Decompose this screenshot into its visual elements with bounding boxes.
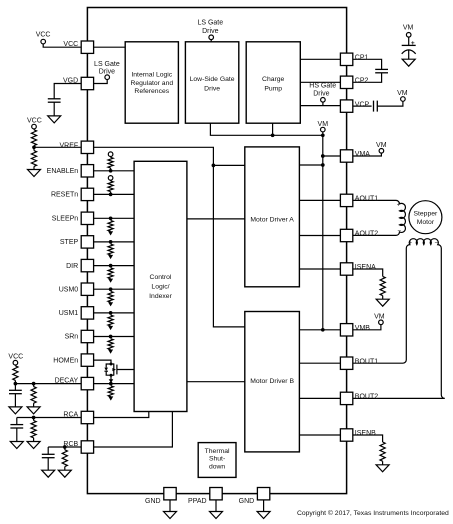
wire resistor to VREF node	[33, 146, 35, 148]
svg-text:DIR: DIR	[66, 263, 78, 270]
pin BOUT1	[340, 357, 352, 369]
svg-text:USM0: USM0	[59, 286, 79, 293]
arrow pull-down USM0	[108, 302, 113, 306]
resistor VCC to DECAY	[14, 364, 16, 367]
pin PPAD bottom	[210, 488, 222, 500]
wire VCC pin to internal logic box	[94, 46, 126, 48]
wire VREF net	[94, 147, 245, 327]
wire control logic to motor driver B	[187, 381, 245, 383]
wire SRn to control logic	[94, 336, 135, 338]
svg-text:VCP: VCP	[355, 101, 370, 108]
terminal pull-up RESETn	[108, 176, 113, 181]
svg-text:VM: VM	[403, 25, 414, 32]
wire charge pump to VCP	[300, 105, 340, 107]
svg-text:VCC: VCC	[27, 117, 42, 124]
IC boundary	[87, 8, 346, 494]
svg-text:−: −	[397, 228, 401, 235]
junction VM to motor driver A	[321, 163, 325, 167]
resistor pull-down SLEEPn	[108, 221, 113, 232]
svg-text:VM: VM	[397, 90, 408, 97]
pin CP2	[340, 76, 352, 88]
wire transistor to DECAY net	[110, 375, 112, 383]
wire LS gate drive top terminal	[210, 40, 212, 42]
capacitor RCA	[16, 418, 18, 425]
wire GND2 pin to ground	[263, 500, 265, 512]
svg-text:Drive: Drive	[99, 68, 115, 75]
wire motor driver A to AOUT2	[299, 235, 340, 237]
pin GND bottom	[164, 488, 176, 500]
junction VM rail top	[321, 133, 325, 137]
pin ENABLEn	[81, 165, 93, 177]
wire VM rail to VMA pin	[323, 155, 341, 157]
pin BOUT2	[340, 392, 352, 404]
block internal logic regulator and references	[125, 42, 178, 123]
svg-text:Charge: Charge	[262, 76, 285, 83]
pin USM1	[81, 307, 93, 319]
pin USM0	[81, 283, 93, 295]
resistor pull-down SRn	[108, 339, 113, 350]
pin CP1	[340, 53, 352, 65]
capacitor CP flying	[375, 68, 388, 70]
svg-text:VMA: VMA	[355, 151, 371, 158]
wire motor driver B to ISENB	[299, 434, 340, 436]
junction STEP	[109, 240, 113, 244]
junction DIR	[109, 264, 113, 268]
wire charge pump to CP1	[300, 58, 340, 60]
pin VCP	[340, 100, 352, 112]
wire STEP to control logic	[94, 241, 135, 243]
wire ENABLEn to control logic	[94, 170, 135, 172]
wire motor driver B to BOUT2	[299, 397, 340, 399]
block control logic indexer	[134, 161, 187, 411]
arrow pull-down USM1	[108, 326, 113, 330]
capacitor VGD bypass	[48, 98, 61, 100]
svg-text:SLEEPn: SLEEPn	[52, 216, 79, 223]
svg-text:Motor Driver A: Motor Driver A	[250, 216, 294, 223]
ground DECAY capacitor	[9, 407, 22, 414]
wire VREF node to VREF pin	[34, 146, 81, 148]
wire RCA external	[17, 417, 81, 419]
svg-text:Indexer: Indexer	[149, 293, 172, 300]
resistor VREF divider bottom	[33, 147, 35, 150]
svg-text:GND: GND	[239, 498, 255, 505]
junction charge pump bottom	[271, 133, 275, 137]
svg-text:Internal Logic: Internal Logic	[131, 72, 172, 79]
pin VMA	[340, 150, 352, 162]
wire VM terminal to VMB pin	[353, 325, 381, 330]
resistor ISENB sense	[380, 442, 385, 461]
svg-text:Pump: Pump	[264, 85, 282, 92]
arrow pull-down SLEEPn	[108, 231, 113, 235]
junction RCA resistor node	[32, 416, 36, 420]
capacitor DECAY	[14, 384, 16, 391]
svg-text:VMB: VMB	[355, 325, 371, 332]
svg-text:VCC: VCC	[8, 354, 23, 361]
resistor pull-down USM1	[108, 315, 113, 326]
svg-text:Low-Side Gate: Low-Side Gate	[190, 76, 235, 83]
junction transistor DECAY	[109, 382, 113, 386]
svg-text:+: +	[397, 201, 401, 208]
svg-text:Drive: Drive	[313, 91, 329, 98]
ground ISENA sense resistor	[376, 299, 389, 306]
svg-text:AOUT2: AOUT2	[355, 231, 378, 238]
svg-text:Drive: Drive	[202, 28, 218, 35]
resistor RCA to ground	[33, 418, 35, 421]
arrow pull-down DIR	[108, 279, 113, 283]
arrow pull-down SRn	[108, 350, 113, 354]
svg-text:STEP: STEP	[60, 239, 79, 246]
wire USM1 to control logic	[94, 312, 135, 314]
arrow pull-down STEP	[108, 255, 113, 259]
svg-text:ISENB: ISENB	[355, 430, 376, 437]
wire motor driver B to BOUT1	[299, 362, 340, 364]
ground PPAD	[210, 512, 223, 519]
svg-text:BOUT2: BOUT2	[355, 394, 378, 401]
wire ISENB to sense resistor	[353, 435, 383, 442]
wire VCP capacitor to VM	[377, 101, 403, 106]
pin STEP	[81, 236, 93, 248]
svg-text:CP2: CP2	[355, 78, 369, 85]
wire DECAY to control logic	[94, 383, 135, 385]
pin RCA	[81, 411, 93, 423]
wire VREF branch to motor driver A	[213, 164, 244, 166]
ground GND	[164, 512, 177, 519]
junction VREF to motor driver A	[212, 164, 216, 168]
svg-text:References: References	[134, 88, 169, 95]
svg-text:LS Gate: LS Gate	[197, 20, 223, 27]
svg-text:Regulator and: Regulator and	[130, 80, 173, 87]
svg-text:VREF: VREF	[60, 143, 79, 150]
svg-text:VCC: VCC	[63, 41, 78, 48]
svg-text:RCA: RCA	[63, 412, 78, 419]
ground RCA capacitor	[10, 442, 23, 449]
wire GND pin to ground	[169, 500, 171, 512]
pin GND bottom	[257, 488, 269, 500]
svg-text:Thermal: Thermal	[205, 448, 230, 455]
svg-text:HS Gate: HS Gate	[309, 83, 336, 90]
ground RCB capacitor	[42, 470, 55, 477]
junction VM to VMB	[321, 328, 325, 332]
resistor RCB to ground	[64, 447, 66, 450]
svg-text:VGD: VGD	[63, 77, 78, 84]
block motor driver A	[245, 147, 300, 287]
stepper motor	[409, 201, 442, 234]
junction RCB resistor node	[63, 445, 67, 449]
svg-text:Control: Control	[150, 274, 172, 281]
ground VREF divider	[28, 170, 41, 177]
terminal pull-up ENABLEn	[108, 152, 113, 157]
wire charge pump bottom stub	[272, 123, 274, 135]
capacitor VCP	[373, 101, 375, 112]
junction VREF divider	[32, 145, 36, 149]
svg-text:down: down	[209, 464, 225, 471]
svg-text:Motor Driver B: Motor Driver B	[250, 378, 294, 385]
wire VM vertical rail	[322, 135, 324, 329]
pin AOUT2	[340, 229, 352, 241]
wire RCB external	[48, 446, 81, 448]
block motor driver B	[245, 312, 300, 452]
resistor pull-down DIR	[108, 268, 113, 279]
pin VREF	[81, 141, 93, 153]
pin SLEEPn	[81, 212, 93, 224]
junction ENABLEn	[109, 169, 113, 173]
wire VM to bulk capacitor	[408, 37, 410, 45]
svg-text:CP1: CP1	[355, 55, 369, 62]
wire flying capacitor to CP2	[353, 73, 382, 83]
svg-text:AOUT1: AOUT1	[355, 196, 378, 203]
ground RCA resistor	[27, 442, 40, 449]
wire HOMEn to transistor	[94, 360, 111, 364]
resistor pull-up RESETn	[110, 179, 112, 182]
wire to ground	[382, 296, 384, 300]
svg-text:HOMEn: HOMEn	[53, 357, 78, 364]
wire motor driver A to ISENA	[299, 268, 340, 270]
wire capacitor to ground	[408, 50, 410, 59]
svg-text:PPAD: PPAD	[188, 498, 207, 505]
svg-text:+: +	[408, 240, 412, 247]
wire RCA to control logic	[94, 412, 149, 418]
svg-text:ENABLEn: ENABLEn	[47, 168, 79, 175]
ground GND2	[257, 512, 270, 519]
capacitor RCB	[47, 447, 49, 454]
wire ISENA to sense resistor	[353, 269, 383, 276]
wire charge pump to CP2	[300, 81, 340, 83]
wire control logic to motor driver A	[187, 218, 245, 220]
pin VCC	[81, 41, 93, 53]
junction USM0	[109, 287, 113, 291]
resistor pull-up ENABLEn	[110, 156, 112, 159]
wire RESETn to control logic	[94, 193, 135, 195]
winding stepper motor B	[353, 239, 445, 399]
wire motor driver B to VMB	[299, 329, 340, 331]
junction USM1	[109, 311, 113, 315]
wire capacitor to ground	[53, 102, 55, 116]
pin DIR	[81, 259, 93, 271]
svg-text:RCB: RCB	[63, 441, 78, 448]
wire to ground	[382, 461, 384, 465]
svg-text:BOUT1: BOUT1	[355, 358, 378, 365]
arrow pull-down DECAY	[108, 396, 113, 400]
svg-text:LS Gate: LS Gate	[94, 61, 120, 68]
svg-text:RESETn: RESETn	[51, 192, 78, 199]
resistor DECAY to ground	[33, 384, 35, 387]
resistor ISENA sense	[380, 276, 385, 295]
wire VM terminal to rail	[322, 132, 324, 135]
wire DIR to control logic	[94, 265, 135, 267]
svg-text:VM: VM	[374, 313, 385, 320]
resistor pull-down STEP	[108, 244, 113, 255]
capacitor VM bulk polarized	[402, 44, 416, 46]
ground VM bulk capacitor	[402, 59, 415, 66]
svg-text:Motor: Motor	[417, 219, 435, 226]
wire PPAD pin to ground	[215, 500, 217, 512]
junction DECAY resistor node	[32, 382, 36, 386]
svg-text:−: −	[435, 240, 439, 247]
wire USM0 to control logic	[94, 288, 135, 290]
junction RESETn	[109, 193, 113, 197]
pin AOUT1	[340, 194, 352, 206]
block low-side gate drive	[185, 42, 238, 123]
svg-text:USM1: USM1	[59, 310, 79, 317]
svg-text:VCC: VCC	[36, 32, 51, 39]
svg-text:DECAY: DECAY	[55, 378, 79, 385]
ground RCB resistor	[58, 470, 71, 477]
wire VM terminal to VMA pin	[353, 153, 382, 156]
wire CP1 to flying capacitor	[353, 59, 382, 69]
resistor VREF divider top	[31, 130, 36, 146]
pin RCB	[81, 441, 93, 453]
wire DECAY net	[15, 383, 81, 385]
wire VCC to resistor	[33, 128, 35, 131]
winding stepper motor A	[353, 200, 406, 235]
svg-text:Logic/: Logic/	[151, 284, 169, 291]
wire motor driver A to AOUT1	[299, 199, 340, 201]
svg-text:Shut-: Shut-	[209, 456, 225, 463]
pin VGD	[81, 77, 93, 89]
ground VGD capacitor	[48, 116, 61, 123]
junction SRn	[109, 335, 113, 339]
svg-text:Copyright © 2017, Texas Instru: Copyright © 2017, Texas Instruments Inco…	[297, 509, 449, 517]
svg-text:Stepper: Stepper	[413, 211, 438, 218]
svg-text:GND: GND	[145, 498, 161, 505]
svg-text:Drive: Drive	[204, 85, 220, 92]
transistor HOMEn mode-setting MOSFET	[113, 363, 115, 375]
junction DECAY capacitor node	[14, 382, 18, 386]
junction VM to VMA	[321, 154, 325, 158]
svg-text:ISENA: ISENA	[355, 264, 376, 271]
svg-text:SRn: SRn	[65, 334, 79, 341]
block charge pump	[246, 42, 300, 123]
wire VCP to capacitor	[353, 105, 372, 107]
wire SLEEPn to control logic	[94, 217, 135, 219]
wire VGD pin to bypass capacitor	[54, 84, 81, 99]
wire LS gate drive terminal to VGD pin	[94, 80, 108, 84]
ground ISENB sense resistor	[376, 465, 389, 472]
pin DECAY	[81, 377, 93, 389]
ground DECAY resistor	[27, 407, 40, 414]
pin HOMEn	[81, 354, 93, 366]
pin ISENA	[340, 263, 352, 275]
pin RESETn	[81, 188, 93, 200]
wire VCC terminal to VCC pin	[43, 44, 81, 47]
pin VMB	[340, 324, 352, 336]
pin SRn	[81, 330, 93, 342]
block thermal shutdown	[198, 443, 236, 478]
junction SLEEPn	[109, 216, 113, 220]
resistor pull-down USM0	[108, 291, 113, 302]
wire motor driver A to VM rail	[299, 164, 322, 166]
wire HS gate drive terminal stub	[322, 102, 324, 106]
wire LS gate drive bottom to VM rail	[210, 123, 322, 135]
wire to ground	[33, 166, 35, 169]
resistor pull-down DECAY	[108, 386, 113, 397]
pin ISENB	[340, 429, 352, 441]
wire RCB to control logic	[94, 412, 173, 448]
